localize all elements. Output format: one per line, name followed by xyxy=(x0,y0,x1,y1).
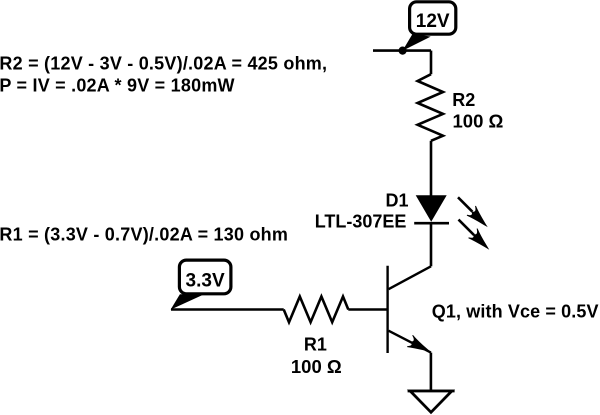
svg-text:100 Ω: 100 Ω xyxy=(453,111,504,132)
node 12V tap junction xyxy=(399,47,407,55)
svg-text:R2: R2 xyxy=(452,90,475,110)
LED D1 cathode bar xyxy=(414,222,449,225)
transistor Q1 base bar xyxy=(386,266,388,353)
wire Q1 emitter to ground xyxy=(430,353,433,390)
ground top bar xyxy=(408,390,455,393)
svg-text:R1: R1 xyxy=(304,335,327,355)
12V supply callout pointer xyxy=(403,34,431,51)
svg-text:P = IV = .02A * 9V = 180mW: P = IV = .02A * 9V = 180mW xyxy=(0,75,235,95)
LED light arrow 2 xyxy=(459,220,493,253)
3.3V supply callout box xyxy=(179,260,231,294)
svg-text:R2 = (12V - 3V - 0.5V)/.02A =: R2 = (12V - 3V - 0.5V)/.02A = 425 ohm, xyxy=(0,53,327,73)
ground triangle xyxy=(410,391,452,412)
svg-text:Q1, with Vce = 0.5V: Q1, with Vce = 0.5V xyxy=(432,302,599,322)
svg-text:3.3V: 3.3V xyxy=(186,271,225,292)
transistor Q1 emitter arrowhead xyxy=(407,335,432,356)
LED light arrow 1 xyxy=(458,197,491,230)
svg-text:R1 = (3.3V - 0.7V)/.02A = 130: R1 = (3.3V - 0.7V)/.02A = 130 ohm xyxy=(0,225,288,245)
wire 3.3V to R1 xyxy=(171,308,284,311)
12V supply callout box xyxy=(410,2,456,34)
LED D1 triangle xyxy=(416,195,447,222)
transistor Q1 collector lead xyxy=(389,266,432,289)
svg-text:LTL-307EE: LTL-307EE xyxy=(315,211,407,231)
resistor R1 xyxy=(284,297,349,323)
svg-text:100 Ω: 100 Ω xyxy=(291,356,342,377)
svg-text:12V: 12V xyxy=(416,11,450,32)
svg-text:D1: D1 xyxy=(386,191,409,211)
wire 12V rail stub xyxy=(373,49,431,52)
wire 12V to R2 xyxy=(430,51,433,75)
transistor Q1 emitter lead xyxy=(389,331,431,353)
wire base: R1 to Q1 xyxy=(348,308,387,311)
wire R2 to D1 xyxy=(430,141,433,196)
3.3V supply callout pointer xyxy=(171,294,205,309)
resistor R2 xyxy=(418,74,443,141)
wire D1 to Q1 collector xyxy=(430,223,433,266)
